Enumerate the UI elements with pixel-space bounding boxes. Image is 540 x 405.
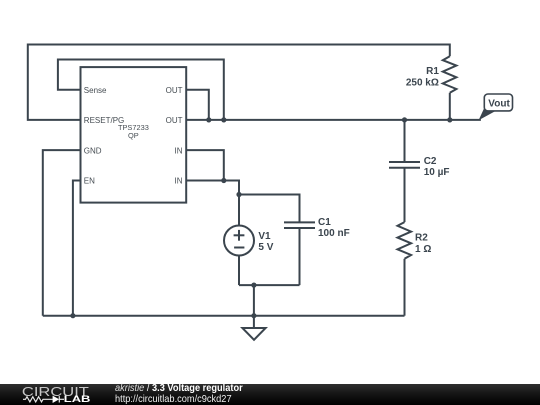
- wire ground tap: [253, 285, 255, 328]
- svg-text:IN: IN: [175, 177, 183, 186]
- wire GND pin: [43, 150, 81, 316]
- CircuitLab logo: [0, 384, 110, 405]
- node Vout flag: [479, 94, 513, 120]
- svg-text:QP: QP: [128, 131, 139, 140]
- resistor R1: [443, 56, 457, 93]
- wire Sense to inner rail: [58, 60, 224, 120]
- wire V1 bottom: [238, 255, 240, 285]
- wire IN pin1: [186, 150, 224, 180]
- wire R1 branch: [449, 93, 451, 120]
- svg-text:R2: R2: [415, 233, 428, 244]
- node junction sense rail: [221, 117, 226, 122]
- wire IN pin2: [186, 181, 239, 195]
- node junction ground loop: [251, 283, 256, 288]
- wire bottom loop V1-C1: [239, 284, 300, 286]
- svg-text:R1: R1: [426, 66, 439, 77]
- node junction IN pins: [221, 178, 226, 183]
- svg-text:GND: GND: [84, 146, 102, 155]
- svg-text:10 µF: 10 µF: [424, 167, 450, 178]
- node junction OUT1/OUT2: [206, 117, 211, 122]
- footer title text: [115, 383, 243, 404]
- wire V1 top: [238, 195, 240, 226]
- wire bottom rail: [43, 315, 405, 317]
- op-amp U1 TPS7233 IC body: [81, 67, 187, 203]
- svg-text:EN: EN: [84, 177, 95, 186]
- svg-text:LAB: LAB: [64, 394, 91, 405]
- wire RESET/PG to top rail to R1: [28, 45, 450, 120]
- svg-text:C2: C2: [424, 156, 437, 167]
- wire R2 bottom: [404, 259, 406, 316]
- capacitor C2: [389, 162, 420, 168]
- svg-text:5 V: 5 V: [258, 242, 273, 253]
- svg-text:Vout: Vout: [488, 99, 510, 110]
- wire OUT pin1: [186, 90, 209, 120]
- node junction V1/C1: [236, 192, 241, 197]
- voltage source V1: [224, 226, 254, 256]
- svg-text:Sense: Sense: [84, 86, 107, 95]
- footer bar: [0, 384, 540, 405]
- svg-text:1 Ω: 1 Ω: [415, 244, 431, 255]
- resistor R2: [398, 222, 412, 259]
- svg-text:C1: C1: [318, 217, 331, 228]
- svg-text:250 kΩ: 250 kΩ: [406, 78, 439, 89]
- svg-text:OUT: OUT: [166, 116, 183, 125]
- wire EN pin: [73, 181, 81, 316]
- node junction EN rail: [70, 313, 75, 318]
- node junction ground rail: [251, 313, 256, 318]
- ground: [242, 328, 265, 340]
- svg-text:IN: IN: [175, 146, 183, 155]
- svg-text:OUT: OUT: [166, 86, 183, 95]
- wire OUT pin2 main output line: [186, 119, 481, 121]
- wire C2/R2 branch top: [404, 120, 406, 162]
- wire C2 to R2: [404, 168, 406, 222]
- svg-text:100 nF: 100 nF: [318, 228, 350, 239]
- wire C1 bottom: [299, 228, 301, 285]
- node junction C2 branch: [402, 117, 407, 122]
- capacitor C1: [284, 222, 315, 228]
- wire to C1: [239, 195, 300, 223]
- node junction R1 branch: [447, 117, 452, 122]
- svg-text:V1: V1: [258, 231, 271, 242]
